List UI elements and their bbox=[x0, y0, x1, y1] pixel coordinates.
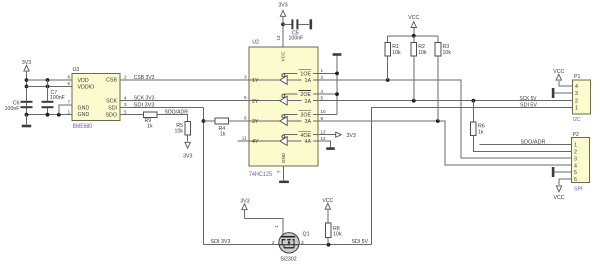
svg-text:2: 2 bbox=[272, 240, 275, 245]
svg-text:8: 8 bbox=[67, 75, 70, 80]
svg-text:1OE: 1OE bbox=[300, 72, 311, 78]
svg-text:SDO/ADR: SDO/ADR bbox=[165, 110, 189, 116]
junction pin7 branch/GND rail bbox=[57, 113, 61, 117]
svg-text:1A: 1A bbox=[305, 78, 312, 84]
wire R5 bottom lead bbox=[187, 135, 189, 141]
svg-text:4: 4 bbox=[321, 89, 324, 94]
ground symbol (at P2 pin5) bbox=[552, 167, 555, 177]
svg-text:GND: GND bbox=[78, 112, 90, 118]
svg-text:2A: 2A bbox=[305, 99, 312, 105]
junction R6/SCK5V bbox=[472, 99, 476, 103]
wire R4 right lead bbox=[229, 120, 250, 122]
junction 3V3/VDDIO bbox=[25, 85, 29, 89]
wire 4OE to 3V3 arrow bbox=[318, 134, 336, 136]
power symbol VCC (below P2, down arrow) bbox=[556, 186, 561, 192]
svg-text:VCC: VCC bbox=[553, 195, 564, 201]
overline for 4OE bbox=[299, 130, 311, 132]
capacitor C7 bbox=[42, 101, 54, 108]
wire 1OE stub bbox=[318, 72, 337, 74]
wire R2 bottom lead bbox=[413, 56, 415, 101]
ground symbol (above OE column) bbox=[333, 53, 342, 56]
wire GND pin7 branch bbox=[59, 105, 72, 115]
svg-text:2: 2 bbox=[124, 74, 127, 79]
svg-text:U2: U2 bbox=[252, 39, 259, 45]
svg-text:100nF: 100nF bbox=[5, 106, 20, 112]
svg-text:4: 4 bbox=[124, 95, 127, 100]
wire C7 bottom lead bbox=[47, 108, 49, 115]
svg-text:CSB: CSB bbox=[106, 78, 117, 84]
wire R6 to P2 pin2 bbox=[473, 136, 571, 152]
buffer 4 of U2 (triangle with OE bubble) bbox=[249, 135, 318, 146]
svg-text:10k: 10k bbox=[418, 50, 427, 56]
svg-text:U3: U3 bbox=[73, 67, 80, 73]
resistor R4 bbox=[215, 118, 229, 124]
connector P1 body bbox=[573, 80, 591, 114]
svg-text:5: 5 bbox=[124, 109, 127, 114]
ground symbol (below 4A) bbox=[326, 147, 335, 150]
wire net CSB 3V3 bbox=[120, 79, 249, 81]
svg-text:3Y: 3Y bbox=[252, 119, 259, 125]
wire R8 bottom lead bbox=[327, 237, 329, 244]
junction R8/SDI5V bbox=[327, 243, 331, 247]
wire GND to P1 pin3 bbox=[554, 92, 572, 94]
IC U3 BME680 body bbox=[72, 74, 120, 121]
power symbol 3V3 (near Q1) bbox=[242, 204, 247, 219]
junction U2 VCC / C5 bbox=[281, 22, 285, 26]
svg-text:1Y: 1Y bbox=[252, 78, 259, 84]
svg-text:2: 2 bbox=[321, 75, 324, 80]
svg-text:10k: 10k bbox=[443, 50, 452, 56]
junction C7/GND rail bbox=[46, 113, 50, 117]
wire net CSB 5V (1A to P2 pin3) bbox=[318, 80, 572, 158]
ground symbol (at P1 pin3) bbox=[552, 88, 555, 98]
svg-text:SDI 3V3: SDI 3V3 bbox=[134, 102, 155, 108]
wire GND stem bbox=[26, 115, 28, 125]
wire 3V3 to Q1 gate bbox=[245, 219, 283, 237]
wire net SDI 3V3 (bottom run) bbox=[204, 244, 279, 246]
svg-text:P1: P1 bbox=[574, 74, 581, 80]
junction 3V3/VDD bbox=[25, 78, 29, 82]
wire 3V3 column to GND rail bbox=[26, 80, 28, 115]
wire R2 top lead bbox=[413, 36, 415, 43]
svg-text:VDD: VDD bbox=[78, 78, 89, 84]
ground symbol (right of C5) bbox=[310, 19, 313, 29]
overline for 2OE bbox=[299, 90, 311, 92]
svg-text:SPI: SPI bbox=[574, 187, 582, 193]
wire VDDIO rail bbox=[27, 85, 73, 87]
svg-text:1: 1 bbox=[274, 225, 279, 228]
wire SDO lead bbox=[120, 114, 144, 116]
capacitor C6 bbox=[21, 101, 33, 108]
resistor R6 bbox=[471, 122, 477, 136]
svg-text:VDDIO: VDDIO bbox=[78, 84, 95, 90]
svg-text:2Y: 2Y bbox=[252, 99, 259, 105]
svg-text:BME680: BME680 bbox=[73, 123, 93, 130]
junction SDI/R4 bbox=[202, 119, 206, 123]
overline for 3OE bbox=[299, 110, 311, 112]
junction VCC rail/R2 bbox=[412, 34, 416, 38]
buffer 1 of U2 (triangle with OE bubble) bbox=[249, 73, 318, 84]
ground symbol (below U2) bbox=[279, 181, 289, 184]
svg-text:10k: 10k bbox=[392, 50, 401, 56]
svg-text:SDO/ADR: SDO/ADR bbox=[521, 140, 546, 146]
svg-text:4OE: 4OE bbox=[300, 133, 311, 139]
svg-text:4Y: 4Y bbox=[252, 139, 259, 145]
svg-text:CSB 3V3: CSB 3V3 bbox=[134, 75, 155, 81]
ground symbol (left) bbox=[22, 125, 32, 128]
wire R4 left lead bbox=[204, 120, 216, 122]
svg-text:3V3: 3V3 bbox=[347, 133, 356, 139]
svg-text:3V3: 3V3 bbox=[278, 2, 287, 8]
wire net SDI 5V (bottom run) bbox=[299, 244, 371, 246]
svg-text:SDI 5V: SDI 5V bbox=[520, 103, 538, 109]
svg-text:3: 3 bbox=[574, 156, 577, 162]
wire R1 top lead bbox=[387, 36, 389, 43]
wire R3 top lead bbox=[437, 36, 439, 43]
svg-text:2OE: 2OE bbox=[300, 92, 311, 98]
wire net SDO 5V (3A to P2 pin4) bbox=[318, 121, 572, 165]
wire net SDO/ADR (to P2 pin1) bbox=[480, 143, 572, 145]
wire C5 right lead bbox=[298, 23, 309, 25]
svg-text:1: 1 bbox=[574, 143, 577, 149]
svg-text:13: 13 bbox=[321, 130, 327, 135]
buffer 3 of U2 (triangle with OE bubble) bbox=[249, 114, 318, 125]
wire 4Y stub bbox=[238, 140, 250, 142]
svg-text:6: 6 bbox=[244, 95, 247, 100]
svg-text:1: 1 bbox=[321, 68, 324, 73]
power symbol 3V3 (below R5, down arrow) bbox=[185, 142, 190, 148]
svg-text:1k: 1k bbox=[147, 124, 153, 130]
junction R1/1A bbox=[386, 78, 390, 82]
power symbol 3V3 (above U2) bbox=[280, 10, 285, 24]
wire SDO/ADR node bbox=[157, 115, 188, 122]
wire net SCK 3V3 bbox=[120, 100, 249, 102]
wire P2 pin6 to VCC bbox=[559, 179, 572, 185]
power symbol VCC (at P1) bbox=[556, 74, 561, 80]
svg-text:10: 10 bbox=[321, 109, 327, 114]
wire net SCK 5V (2A to P1 pin2) bbox=[318, 100, 573, 102]
power symbol VCC (above R8) bbox=[325, 203, 330, 223]
svg-text:Q1: Q1 bbox=[303, 231, 310, 237]
svg-text:P2: P2 bbox=[573, 132, 580, 138]
wire U2 GND stem bbox=[283, 166, 285, 181]
svg-text:SCK: SCK bbox=[106, 99, 117, 105]
svg-text:GND: GND bbox=[78, 106, 90, 112]
svg-text:5: 5 bbox=[321, 96, 324, 101]
svg-text:1k: 1k bbox=[220, 131, 226, 137]
svg-text:11: 11 bbox=[242, 136, 247, 141]
IC U2 74HC125 body bbox=[249, 47, 318, 166]
svg-text:12: 12 bbox=[321, 136, 327, 141]
capacitor C5 bbox=[291, 19, 298, 29]
wire R3 bottom lead bbox=[437, 56, 439, 121]
wire VCC to P1 pin4 bbox=[559, 81, 573, 86]
svg-text:3OE: 3OE bbox=[300, 113, 311, 119]
power symbol VCC (above R2) bbox=[411, 22, 416, 36]
wire net SDI 3V3 horizontal bbox=[120, 107, 204, 109]
wire C7 column bbox=[47, 80, 49, 101]
junction C7/VDDIO bbox=[46, 85, 50, 89]
svg-text:100nF: 100nF bbox=[50, 95, 65, 101]
wire GND to P2 pin5 bbox=[554, 171, 571, 173]
wire 4A to ground bbox=[318, 141, 331, 147]
wire R6 top lead bbox=[472, 101, 474, 122]
wire VCC rail R1-R3 bbox=[388, 35, 438, 37]
svg-text:7: 7 bbox=[276, 170, 281, 173]
svg-text:6: 6 bbox=[67, 81, 70, 86]
junction C7/VDD bbox=[46, 78, 50, 82]
wire 2OE stub bbox=[318, 93, 337, 95]
svg-text:3A: 3A bbox=[305, 119, 312, 125]
svg-text:VCC: VCC bbox=[408, 15, 419, 21]
wire OE tie column bbox=[336, 56, 338, 115]
wire 3OE stub bbox=[318, 113, 337, 115]
svg-text:VCC: VCC bbox=[281, 51, 286, 61]
svg-text:8: 8 bbox=[244, 116, 247, 121]
svg-text:10k: 10k bbox=[175, 128, 184, 134]
svg-text:SDI 3V3: SDI 3V3 bbox=[211, 239, 231, 245]
svg-text:10k: 10k bbox=[333, 232, 342, 238]
resistor R2 bbox=[411, 43, 417, 57]
svg-text:3V3: 3V3 bbox=[240, 198, 249, 204]
resistor R1 bbox=[385, 43, 391, 57]
wire net SDI 5V (vertical + to P1 pin1) bbox=[372, 107, 573, 244]
wire C5 left lead bbox=[283, 23, 291, 25]
svg-text:SDI: SDI bbox=[108, 106, 117, 112]
overline for 1OE bbox=[299, 69, 311, 71]
svg-text:4: 4 bbox=[575, 84, 578, 90]
svg-text:1: 1 bbox=[575, 106, 578, 112]
wire net SDI 3V3 vertical drop bbox=[203, 108, 205, 245]
wire GND rail left bbox=[27, 114, 73, 116]
svg-text:4: 4 bbox=[574, 163, 577, 169]
svg-text:SCK 5V: SCK 5V bbox=[520, 96, 537, 102]
svg-text:SDI 5V: SDI 5V bbox=[352, 239, 369, 245]
junction OE column/2OE bbox=[335, 92, 339, 96]
svg-text:2: 2 bbox=[574, 150, 577, 156]
resistor R3 bbox=[435, 43, 441, 57]
buffer 2 of U2 (triangle with OE bubble) bbox=[249, 94, 318, 105]
wire R1 bottom lead bbox=[387, 56, 389, 80]
svg-text:3V3: 3V3 bbox=[183, 153, 192, 159]
connector P2 body bbox=[572, 138, 590, 183]
junction R3/3A bbox=[436, 119, 440, 123]
svg-text:100nF: 100nF bbox=[289, 36, 304, 42]
svg-text:14: 14 bbox=[276, 35, 281, 41]
svg-text:4A: 4A bbox=[305, 139, 312, 145]
resistor R9 bbox=[144, 112, 158, 118]
svg-text:74HC125: 74HC125 bbox=[249, 171, 273, 178]
resistor R5 bbox=[185, 122, 191, 136]
svg-text:SDO: SDO bbox=[106, 112, 117, 118]
svg-text:9: 9 bbox=[321, 116, 324, 121]
svg-text:GND: GND bbox=[281, 152, 286, 163]
wire U2 VCC stem bbox=[282, 24, 284, 47]
junction OE column/1OE bbox=[335, 72, 339, 76]
svg-text:6: 6 bbox=[574, 177, 577, 183]
svg-text:3: 3 bbox=[244, 75, 247, 80]
svg-text:Si2302: Si2302 bbox=[280, 256, 296, 262]
svg-text:1: 1 bbox=[67, 109, 70, 114]
svg-text:2: 2 bbox=[575, 99, 578, 105]
svg-text:1k: 1k bbox=[478, 129, 484, 135]
resistor R8 bbox=[325, 223, 331, 237]
junction C6/GND rail bbox=[25, 113, 29, 117]
svg-text:3: 3 bbox=[575, 91, 578, 97]
wire VDD rail bbox=[27, 79, 73, 81]
svg-text:3: 3 bbox=[124, 102, 127, 107]
svg-text:7: 7 bbox=[67, 99, 70, 104]
transistor Q1 Si2302 MOSFET bbox=[279, 233, 299, 253]
svg-text:SCK 3V3: SCK 3V3 bbox=[134, 96, 155, 102]
power symbol 3V3 (left supply arrow) bbox=[24, 65, 29, 80]
power symbol 3V3 (right arrow at 4OE) bbox=[336, 132, 342, 137]
svg-text:5: 5 bbox=[574, 170, 577, 176]
svg-text:I2C: I2C bbox=[573, 117, 581, 123]
junction R2/SCK5V bbox=[412, 99, 416, 103]
